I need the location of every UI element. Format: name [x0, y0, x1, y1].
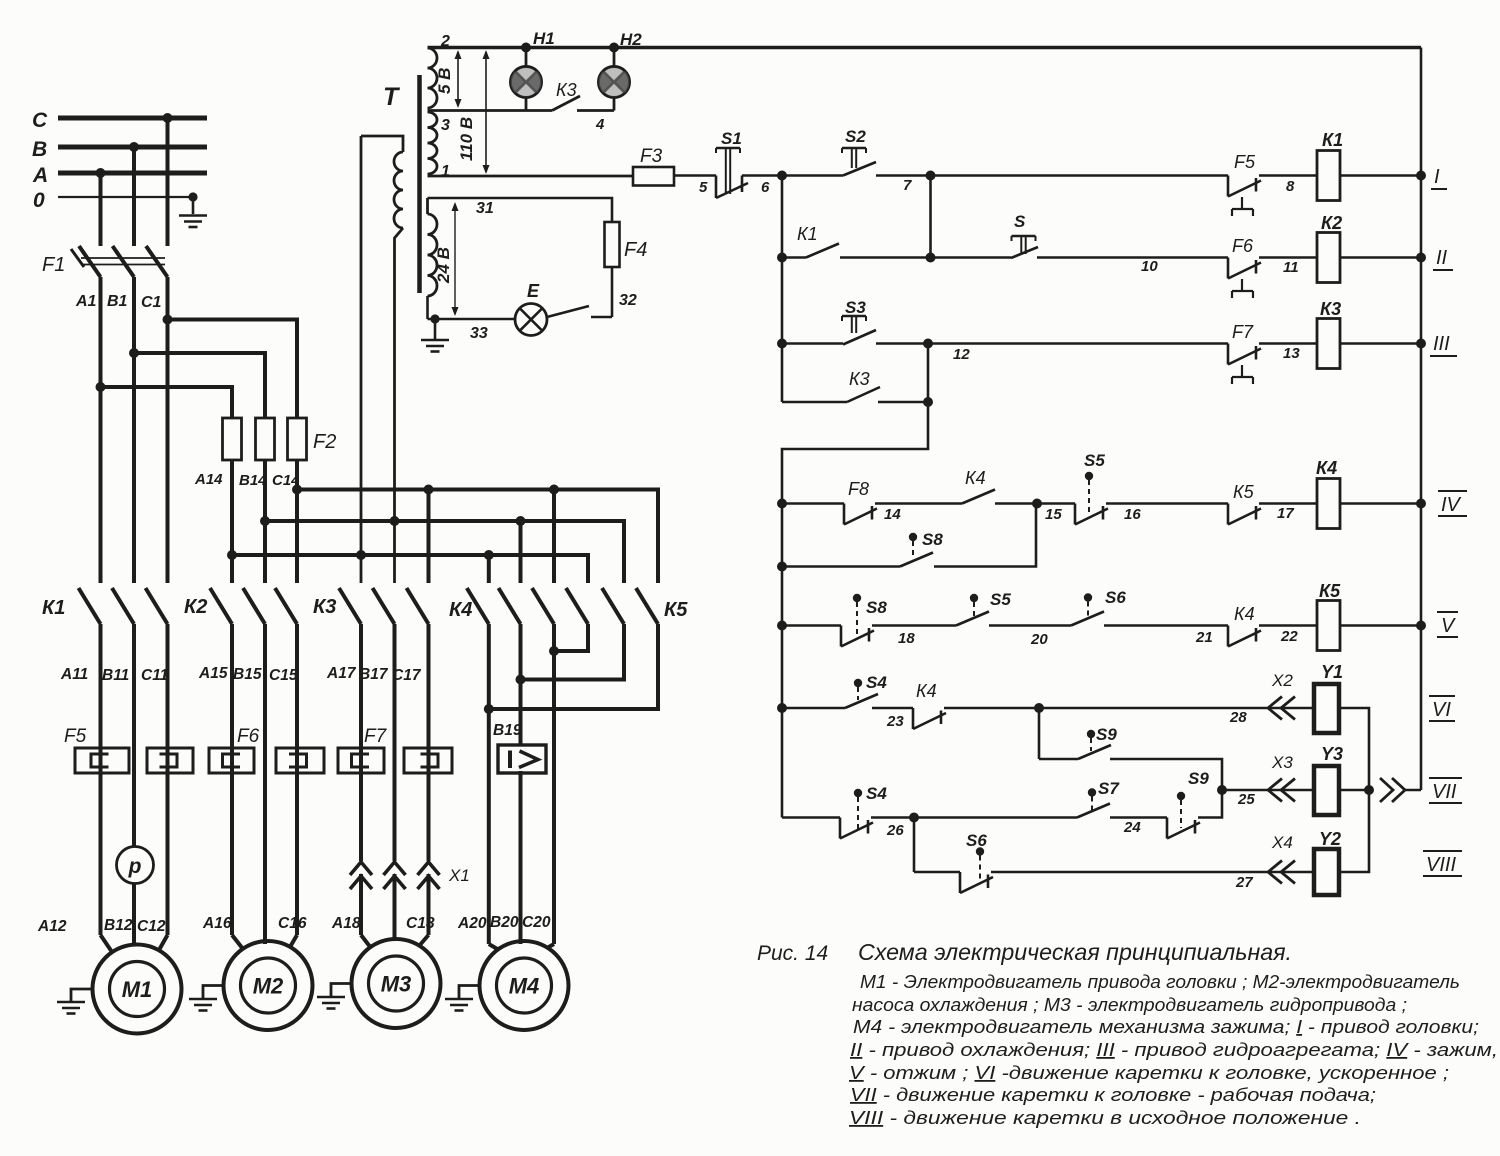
svg-text:А11: А11 — [60, 666, 88, 683]
node B tap — [129, 142, 139, 246]
wire M1 entry right — [159, 935, 168, 950]
wire supply line B — [32, 138, 207, 161]
label С15 — [269, 667, 298, 684]
fuse F2 C14 — [288, 418, 307, 460]
wire M2 C lead — [295, 624, 299, 935]
svg-text:Y1: Y1 — [1321, 662, 1343, 682]
transformer T core — [417, 75, 422, 293]
svg-text:М4 - электродвигатель механизм: М4 - электродвигатель механизма зажима; … — [853, 1017, 1479, 1037]
svg-text:VIII - движение каретки в исхо: VIII - движение каретки в исходное полож… — [849, 1108, 1361, 1128]
svg-text:М3: М3 — [381, 972, 412, 997]
wire S6 branch vertical — [913, 818, 916, 873]
svg-text:Е: Е — [527, 281, 540, 301]
svg-text:С11: С11 — [141, 667, 168, 684]
wire M1 A lead — [99, 624, 103, 935]
svg-text:А12: А12 — [37, 918, 67, 935]
contactor К4 main contact pole 3 — [532, 588, 554, 624]
wire row III segment c — [1259, 344, 1317, 363]
wire row VII segment b — [871, 813, 1077, 823]
caption line 5 — [850, 1040, 1498, 1060]
overload F7 label — [364, 726, 388, 747]
coil Y3 — [1314, 744, 1343, 815]
wire row IV segment f — [1340, 502, 1421, 505]
wire row I segment c — [876, 176, 1228, 195]
switch F1 pole A blade — [71, 246, 101, 277]
contactor К2 main contact pole 3 — [275, 588, 297, 624]
lamp H2 — [599, 48, 630, 111]
svg-text:3: 3 — [441, 117, 450, 134]
svg-text:6: 6 — [761, 179, 770, 196]
overload F6 heater C phase — [276, 748, 324, 773]
wire row IV segment e — [1259, 504, 1317, 523]
svg-text:К1: К1 — [42, 597, 65, 619]
wire K1 pole B down — [132, 624, 136, 847]
node bus B to K3 — [390, 516, 400, 526]
svg-text:К5: К5 — [1233, 482, 1255, 502]
svg-text:A: A — [32, 164, 48, 187]
svg-text:F6: F6 — [237, 726, 260, 747]
svg-text:S5: S5 — [1084, 451, 1105, 470]
node row I left rail — [777, 171, 787, 181]
label С16 — [278, 915, 307, 932]
fuse F4 — [605, 222, 648, 267]
label B1 — [107, 293, 128, 310]
svg-text:F7: F7 — [1232, 322, 1254, 342]
svg-text:VIII: VIII — [1426, 854, 1456, 876]
svg-text:В14: В14 — [239, 472, 267, 489]
svg-text:М1 - Электродвигатель привода: М1 - Электродвигатель привода головки ; … — [860, 972, 1460, 992]
wire 33 — [428, 296, 516, 342]
label А16 — [202, 915, 232, 932]
svg-text:22: 22 — [1280, 628, 1298, 645]
overload F5 heater C phase — [147, 748, 193, 773]
wire K2 pole B down — [263, 624, 267, 944]
label circuit III — [1430, 333, 1457, 356]
wire Y1 return — [1339, 708, 1369, 790]
svg-text:I: I — [1434, 166, 1440, 188]
svg-text:S8: S8 — [922, 530, 943, 549]
switch S9 NO branch — [1078, 725, 1117, 759]
fuse F3 — [633, 146, 674, 186]
coil Y2 — [1314, 829, 1341, 895]
svg-text:К4: К4 — [1234, 604, 1255, 624]
contactor К3 main contacts label — [313, 596, 336, 618]
svg-text:VII: VII — [1432, 781, 1457, 803]
wire row III segment b — [876, 344, 1228, 364]
fuse F2 B14 — [256, 418, 275, 460]
node bus B to K4 — [516, 516, 526, 583]
wire supply line A — [32, 164, 207, 187]
fuse F2 A14 — [223, 418, 242, 460]
svg-text:С1: С1 — [141, 294, 162, 311]
svg-text:К2: К2 — [184, 596, 207, 618]
label С12 — [137, 918, 166, 935]
switch S7 NO — [1077, 779, 1120, 818]
caption line 3 — [852, 995, 1407, 1015]
switch S4 NO row VI — [845, 673, 887, 708]
svg-text:К4: К4 — [916, 681, 937, 701]
svg-text:S9: S9 — [1188, 769, 1209, 788]
svg-text:26: 26 — [886, 822, 904, 839]
wire S9 branch a — [1039, 758, 1078, 761]
contact F6 thermal NC — [1228, 236, 1261, 298]
switch S4 NC row VII — [840, 784, 904, 839]
wire row VI segment a — [782, 707, 845, 710]
svg-text:S8: S8 — [866, 598, 887, 617]
wire S9 branch vertical — [1038, 708, 1041, 759]
wire X common to rail — [1404, 789, 1421, 792]
svg-text:21: 21 — [1195, 629, 1213, 646]
ground 24V — [421, 340, 449, 352]
svg-text:S4: S4 — [866, 673, 887, 692]
svg-text:F5: F5 — [64, 726, 87, 747]
wire K4 pole C down — [549, 624, 559, 944]
svg-text:С16: С16 — [278, 915, 307, 932]
svg-text:X4: X4 — [1271, 833, 1293, 852]
wire row I segment a — [674, 176, 716, 197]
svg-text:Y3: Y3 — [1321, 744, 1343, 764]
wire branch B1 to fuse B14 — [129, 348, 265, 418]
svg-text:А16: А16 — [202, 915, 232, 932]
svg-text:110 В: 110 В — [457, 117, 476, 161]
svg-text:13: 13 — [1283, 345, 1300, 362]
wire M2 entry right — [290, 935, 297, 947]
wire K4 pole B down — [516, 624, 526, 944]
node H1 tap — [521, 43, 531, 53]
lamp H1 — [511, 48, 542, 111]
svg-text:23: 23 — [886, 713, 904, 730]
node H2 tap — [609, 43, 619, 53]
switch F1 pole B blade — [113, 246, 135, 277]
svg-text:1: 1 — [441, 163, 450, 180]
svg-text:F4: F4 — [624, 239, 647, 261]
wire bus phase C — [297, 490, 658, 584]
svg-text:А20: А20 — [457, 915, 487, 932]
wire Y2 return — [1339, 790, 1369, 872]
svg-text:F3: F3 — [640, 146, 663, 167]
overload F6 heater A phase — [209, 748, 254, 773]
label А11 — [60, 666, 88, 683]
wire p to M1 — [132, 884, 136, 945]
svg-text:5 В: 5 В — [435, 68, 454, 94]
svg-text:25: 25 — [1237, 791, 1255, 808]
wire row VIII segment a — [914, 871, 960, 874]
node bus C to K3 — [424, 485, 434, 584]
node row VI left rail — [777, 703, 787, 713]
wire row IV segment d — [1106, 504, 1228, 524]
svg-text:К4: К4 — [965, 468, 986, 488]
wire row VII segment c — [1110, 818, 1167, 837]
svg-text:20: 20 — [1030, 631, 1048, 648]
svg-text:V - отжим ; VI -движение карет: V - отжим ; VI -движение каретки к голов… — [849, 1063, 1449, 1083]
svg-text:S6: S6 — [1105, 588, 1126, 607]
button S3 — [842, 298, 876, 345]
svg-text:А14: А14 — [194, 471, 223, 488]
svg-text:К5: К5 — [664, 599, 688, 621]
switch S6 NC row VIII — [960, 831, 993, 893]
relay B19 box — [498, 745, 546, 773]
svg-text:II - привод охлаждения; III -: II - привод охлаждения; III - привод гид… — [850, 1040, 1498, 1060]
svg-text:К3: К3 — [849, 369, 870, 389]
svg-text:С15: С15 — [269, 667, 298, 684]
svg-text:В12: В12 — [104, 917, 133, 934]
wire M3 A lead — [359, 624, 363, 935]
switch S9 NC row VII — [1167, 769, 1209, 839]
contact K4 interlock NC — [1228, 604, 1261, 647]
wire row II segment c — [1259, 258, 1317, 277]
motor M1 — [93, 945, 182, 1034]
svg-text:В15: В15 — [233, 666, 262, 683]
current relay p — [117, 847, 154, 884]
ground motor M4 — [445, 986, 480, 1011]
contact K3 lamp label — [556, 80, 577, 100]
coil Y1 — [1314, 662, 1343, 733]
label А17 — [326, 665, 357, 682]
label В15 — [233, 666, 262, 683]
svg-text:С18: С18 — [406, 915, 435, 932]
svg-text:IV: IV — [1441, 494, 1462, 516]
svg-text:V: V — [1441, 615, 1456, 637]
wire line 1 — [428, 175, 634, 178]
button S — [1011, 212, 1038, 258]
overload F7 heater C phase — [404, 748, 452, 773]
svg-text:В17: В17 — [359, 666, 389, 683]
motor M3 — [352, 939, 441, 1028]
svg-text:X1: X1 — [448, 866, 470, 885]
wire row V segment e — [1259, 626, 1317, 646]
caption line 4 — [853, 1017, 1479, 1037]
svg-text:К3: К3 — [313, 596, 336, 618]
wire C14 down — [292, 460, 302, 583]
node 7-10 vertical — [926, 176, 936, 263]
wire right rail — [1420, 48, 1423, 791]
contactor К2 main contacts label — [184, 596, 207, 618]
contact F5 thermal NC — [1228, 152, 1261, 216]
contact K1 aux NO — [782, 224, 839, 258]
node 12 junction — [923, 339, 933, 349]
svg-text:27: 27 — [1235, 874, 1253, 891]
contact K5 interlock NC — [1228, 482, 1261, 525]
contactor К4 main contact pole 2 — [499, 588, 521, 624]
transformer T label — [383, 83, 401, 111]
label В17 — [359, 666, 389, 683]
wire row I segment b — [742, 176, 843, 197]
wire supply neutral 0 — [33, 189, 193, 212]
wire row VI segment b — [872, 708, 913, 730]
svg-text:К1: К1 — [1322, 130, 1343, 150]
svg-text:К4: К4 — [449, 599, 472, 621]
node row II right rail — [1416, 253, 1426, 263]
contact K3 aux NO — [782, 369, 880, 402]
wire left rail upper — [777, 176, 787, 403]
label А20 — [457, 915, 487, 932]
contactor К5 main contact pole 2 — [602, 588, 624, 624]
lamp H2 label — [620, 30, 642, 49]
wire row VII segment d — [1198, 785, 1227, 818]
svg-text:С20: С20 — [522, 914, 551, 931]
relay B19 label — [493, 722, 522, 739]
overload F6 label — [237, 726, 260, 747]
svg-text:К3: К3 — [1320, 299, 1341, 319]
connector X3 — [1268, 753, 1295, 802]
wire row II segment a — [840, 256, 1011, 259]
contact F8 thermal NC — [844, 479, 901, 525]
wire row VII segment a — [782, 816, 840, 819]
svg-text:F5: F5 — [1234, 152, 1256, 172]
dimension 110V — [457, 50, 490, 174]
svg-text:16: 16 — [1124, 506, 1141, 523]
label circuit V — [1437, 612, 1458, 637]
svg-text:В11: В11 — [102, 667, 129, 684]
contactor К5 main contact pole 3 — [636, 588, 658, 624]
wire row I segment e — [1340, 174, 1421, 177]
dimension 5V — [435, 50, 462, 108]
label C1 — [141, 294, 162, 311]
label circuit VI — [1429, 696, 1455, 721]
svg-text:S9: S9 — [1096, 725, 1117, 744]
node row I right rail — [1416, 171, 1426, 181]
svg-text:А1: А1 — [75, 293, 97, 310]
contactor К5 main contacts label — [664, 599, 688, 621]
svg-text:В1: В1 — [107, 293, 128, 310]
ground motor M2 — [189, 986, 224, 1011]
wire 32 — [612, 267, 637, 317]
wire M4 entry left — [489, 944, 499, 950]
wire row V segment f — [1340, 624, 1421, 627]
contact K3 lamp blade — [552, 96, 580, 111]
contactor К4 main contacts label — [449, 599, 472, 621]
node bus C to K4 — [549, 485, 559, 584]
node neutral earth tap — [188, 192, 197, 214]
ground motor M3 — [317, 984, 352, 1009]
switch S5 NO row V — [956, 590, 1011, 626]
svg-text:F8: F8 — [848, 479, 869, 499]
svg-text:S2: S2 — [845, 127, 866, 146]
transformer winding primary — [394, 152, 403, 228]
svg-text:S6: S6 — [966, 831, 987, 850]
ground neutral — [179, 216, 207, 228]
wire Y3 return — [1339, 785, 1374, 795]
wire M3 entry left — [361, 935, 371, 948]
wire row V segment d — [1104, 626, 1228, 647]
motor M4 — [480, 941, 569, 1030]
connector X2 — [1268, 671, 1295, 720]
switch F1 linkage bar — [81, 258, 165, 265]
wire K3 aux segment — [878, 397, 933, 407]
label B14 — [239, 472, 267, 489]
coil K4 — [1316, 458, 1340, 529]
wire row VII to X3 — [1222, 790, 1314, 808]
connector X1 pole B — [384, 862, 406, 889]
label circuit VII — [1429, 778, 1462, 803]
svg-text:К3: К3 — [556, 80, 577, 100]
dimension 24V — [434, 202, 459, 316]
contactor К1 main contact pole 1 — [79, 588, 101, 624]
caption line 7 — [850, 1085, 1376, 1105]
node S8branch left rail — [777, 562, 787, 572]
svg-text:А15: А15 — [198, 665, 228, 682]
contact K4 interlock NC row VI — [913, 681, 946, 729]
svg-text:VII - движение каретки к голов: VII - движение каретки к головке - рабоч… — [850, 1085, 1376, 1105]
contact K4 aux NO row IV — [962, 468, 995, 504]
wire K5 pole C return — [489, 624, 658, 709]
label circuit VIII — [1423, 851, 1462, 876]
connector X common — [1380, 778, 1405, 802]
svg-text:К2: К2 — [1321, 213, 1342, 233]
svg-text:S7: S7 — [1098, 779, 1120, 798]
wire phase A1 vertical — [99, 277, 103, 583]
label circuit IV — [1438, 491, 1467, 516]
wire M2 A lead — [230, 624, 234, 935]
switch F1 pole C blade — [146, 246, 168, 277]
svg-text:S1: S1 — [721, 129, 742, 148]
svg-text:S5: S5 — [990, 590, 1011, 609]
motor M2 — [224, 941, 313, 1030]
svg-text:Схема электрическая принципи: Схема электрическая принципиальная. — [858, 939, 1292, 965]
connector X1 pole C — [418, 862, 440, 889]
svg-text:F1: F1 — [42, 254, 65, 276]
transformer winding 24V — [428, 214, 438, 296]
svg-text:Н2: Н2 — [620, 30, 642, 49]
node row III right rail — [1416, 339, 1426, 349]
label А12 — [37, 918, 67, 935]
overload F5 heater A phase — [75, 748, 129, 773]
wire lamp H2 stub 4 — [577, 111, 614, 134]
wire M2 entry left — [232, 935, 243, 949]
node row V right rail — [1416, 621, 1426, 631]
svg-text:Н1: Н1 — [533, 29, 555, 48]
svg-text:B: B — [32, 138, 47, 161]
svg-text:М2: М2 — [253, 974, 284, 999]
wire primary top — [361, 136, 403, 152]
label А15 — [198, 665, 228, 682]
svg-text:32: 32 — [619, 292, 637, 309]
wire K5 pole A return — [554, 624, 588, 651]
wire M4 entry right — [547, 944, 554, 948]
contactor К2 main contact pole 1 — [210, 588, 232, 624]
svg-text:24: 24 — [1123, 819, 1141, 836]
label В11 — [102, 667, 129, 684]
svg-text:S3: S3 — [845, 298, 866, 317]
connector X1 label — [448, 866, 470, 885]
wire primary bottom — [395, 228, 404, 583]
svg-text:7: 7 — [903, 177, 912, 194]
svg-text:С12: С12 — [137, 918, 166, 935]
node row IV left rail — [777, 499, 787, 509]
svg-text:насоса охлаждения ; М3 - элект: насоса охлаждения ; М3 - электродвигател… — [852, 995, 1407, 1015]
svg-text:F7: F7 — [364, 726, 388, 747]
svg-text:В20: В20 — [490, 914, 519, 931]
coil K5 — [1317, 581, 1341, 651]
svg-text:4: 4 — [595, 116, 605, 133]
svg-text:В19: В19 — [493, 722, 522, 739]
label С18 — [406, 915, 435, 932]
svg-text:К1: К1 — [797, 224, 818, 244]
wire supply line C — [32, 109, 207, 132]
wire bus phase B — [265, 521, 624, 583]
wire K3 pole B down — [393, 624, 397, 941]
svg-text:F6: F6 — [1232, 236, 1254, 256]
node row V left rail — [777, 621, 787, 631]
svg-text:М4: М4 — [509, 974, 540, 999]
overload F5 label — [64, 726, 87, 747]
svg-text:VI: VI — [1432, 699, 1451, 721]
wire row III segment d — [1340, 342, 1421, 345]
wire branch C1 to fuse C14 — [163, 315, 298, 419]
ground motor M1 — [57, 989, 93, 1014]
wire bus phase A — [232, 555, 588, 583]
svg-text:Рис. 14: Рис. 14 — [757, 942, 828, 965]
